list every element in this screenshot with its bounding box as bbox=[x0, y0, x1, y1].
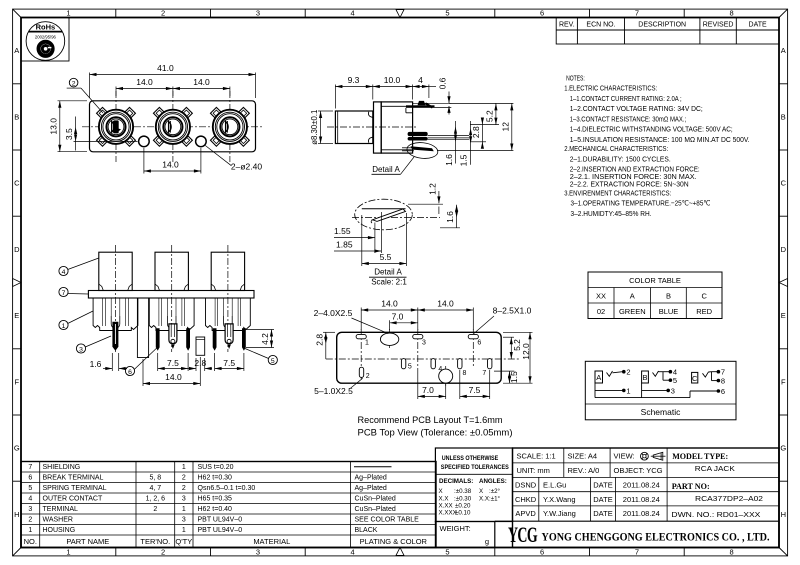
svg-text:NO.: NO. bbox=[24, 537, 37, 546]
parts table row 2 bbox=[28, 517, 419, 524]
pcb dims 14.0 bbox=[361, 298, 473, 330]
svg-text:A: A bbox=[596, 373, 601, 382]
svg-text:4: 4 bbox=[351, 9, 355, 18]
svg-text:9.3: 9.3 bbox=[348, 75, 360, 85]
svg-text:BLACK: BLACK bbox=[355, 527, 378, 534]
svg-text:1.5: 1.5 bbox=[509, 371, 519, 383]
rear view barrel 3 bbox=[211, 245, 244, 352]
svg-text:Recommend PCB Layout T=1.6m: Recommend PCB Layout T=1.6mm bbox=[358, 415, 503, 426]
svg-text:5–1.0X2.5: 5–1.0X2.5 bbox=[314, 386, 353, 396]
svg-text:14.0: 14.0 bbox=[165, 372, 182, 382]
detail A extension lines bbox=[362, 212, 407, 266]
svg-text:C: C bbox=[14, 179, 20, 188]
svg-text:DESCRIPTION: DESCRIPTION bbox=[638, 21, 686, 28]
rear view shield pin jack1 bbox=[112, 322, 118, 351]
svg-text:H62 t=0.40: H62 t=0.40 bbox=[198, 506, 233, 513]
svg-text:DWN. NO.: RD01–XXX: DWN. NO.: RD01–XXX bbox=[671, 510, 760, 519]
svg-text:8: 8 bbox=[730, 9, 734, 18]
rear view barrel 1 bbox=[99, 245, 132, 352]
svg-text:5: 5 bbox=[408, 364, 412, 371]
contact A wire to pin 1 bbox=[595, 383, 631, 398]
svg-text:BREAK TERMINAL: BREAK TERMINAL bbox=[43, 475, 104, 482]
svg-text:0.6: 0.6 bbox=[438, 77, 448, 89]
svg-text:7: 7 bbox=[28, 464, 32, 471]
tolerance box bbox=[435, 448, 512, 522]
svg-text:PART NO:: PART NO: bbox=[672, 482, 710, 491]
dims 9.3 and 10.0 bbox=[335, 75, 412, 109]
svg-text:DATE: DATE bbox=[593, 481, 612, 490]
svg-text:2–ø2.40: 2–ø2.40 bbox=[231, 161, 262, 171]
dim 1.6 detail bbox=[440, 205, 460, 228]
svg-text:2002/95/96: 2002/95/96 bbox=[35, 34, 57, 39]
svg-text:ø8.30±0.1: ø8.30±0.1 bbox=[310, 110, 319, 145]
dim 14.0 top pair bbox=[116, 77, 230, 96]
svg-text:B: B bbox=[14, 113, 19, 122]
svg-text:SPRING TERMINAL: SPRING TERMINAL bbox=[43, 485, 107, 492]
svg-text:14.0: 14.0 bbox=[381, 298, 398, 308]
svg-text:1: 1 bbox=[182, 527, 186, 534]
svg-text:2011.08.24: 2011.08.24 bbox=[623, 495, 660, 504]
svg-text:E: E bbox=[14, 311, 19, 320]
svg-text:SPECIFIED TOLERANCES: SPECIFIED TOLERANCES bbox=[441, 464, 510, 471]
pcb slot 3 bbox=[413, 334, 426, 346]
dim 41.0 bbox=[90, 63, 256, 98]
svg-text:F: F bbox=[781, 378, 786, 387]
svg-text:XX: XX bbox=[596, 292, 606, 301]
rear view break pin 4 bbox=[242, 328, 246, 351]
svg-text:6: 6 bbox=[477, 340, 481, 347]
schematic contact B bbox=[642, 371, 649, 383]
svg-text:8: 8 bbox=[730, 547, 734, 556]
svg-text:2.MECHANICAL CHARACTERISTICS:: 2.MECHANICAL CHARACTERISTICS: bbox=[564, 144, 668, 153]
title block grid bbox=[495, 448, 779, 548]
svg-text:7.0: 7.0 bbox=[422, 385, 434, 395]
rear view mounting plate bbox=[88, 291, 254, 299]
svg-text:REV.: A/0: REV.: A/0 bbox=[568, 466, 600, 475]
dim 7.5 rear right bbox=[215, 353, 244, 371]
svg-text:4, 7: 4, 7 bbox=[149, 485, 161, 492]
svg-text:02: 02 bbox=[597, 307, 605, 316]
svg-text:6: 6 bbox=[28, 475, 32, 482]
svg-text:E.L.Gu: E.L.Gu bbox=[543, 481, 566, 490]
pcb slot 1 bbox=[356, 334, 369, 346]
pcb label 2-4.0x2.5 bbox=[314, 308, 389, 334]
balloon 2 callout bbox=[67, 78, 103, 113]
detail A blade bbox=[362, 209, 406, 223]
balloon 3 bbox=[76, 336, 111, 353]
svg-text:SIZE: A4: SIZE: A4 bbox=[568, 452, 598, 461]
svg-text:X: X bbox=[479, 488, 483, 495]
svg-text:2: 2 bbox=[161, 9, 165, 18]
pcb slot 7 bbox=[482, 359, 492, 377]
svg-text:ANGLES:: ANGLES: bbox=[479, 478, 507, 485]
dim 2.8 rear bbox=[188, 358, 212, 371]
svg-text:14.0: 14.0 bbox=[136, 77, 153, 87]
dim 14.0 rear bbox=[143, 357, 200, 386]
svg-text:RCA JACK: RCA JACK bbox=[695, 464, 735, 473]
balloon 6 bbox=[125, 348, 157, 376]
pcb slot 2 bbox=[359, 367, 369, 380]
svg-text:1–2.CONTACT VOLTAGE RATING:: 1–2.CONTACT VOLTAGE RATING: 34V DC; bbox=[570, 104, 703, 113]
svg-text:1.2: 1.2 bbox=[428, 183, 438, 195]
contact B wire to pin 3 bbox=[642, 383, 675, 398]
dim 7.5 rear left bbox=[158, 353, 188, 371]
svg-text::±1°: :±1° bbox=[489, 496, 501, 503]
svg-text:5.5: 5.5 bbox=[380, 252, 392, 262]
pcb big oval hole left bbox=[380, 333, 398, 345]
pcb slot 8 bbox=[458, 359, 467, 377]
title row unit rev object model bbox=[517, 452, 735, 475]
svg-text:2.8: 2.8 bbox=[314, 334, 324, 346]
svg-text:HOUSING: HOUSING bbox=[43, 527, 76, 534]
svg-text:E: E bbox=[781, 311, 786, 320]
svg-text:OBJECT: YCG: OBJECT: YCG bbox=[614, 466, 663, 475]
svg-text:41.0: 41.0 bbox=[157, 63, 174, 73]
svg-text:Ag–Plated: Ag–Plated bbox=[355, 485, 387, 492]
parts table row 4 bbox=[28, 496, 396, 503]
dim 5.5 bbox=[362, 252, 407, 265]
svg-text:8: 8 bbox=[721, 377, 725, 386]
svg-text:5: 5 bbox=[271, 358, 275, 365]
pcb dim 1.5 bbox=[494, 371, 519, 383]
dim dia8.30 bbox=[310, 110, 333, 145]
svg-text:2–4.0X2.5: 2–4.0X2.5 bbox=[314, 308, 353, 318]
svg-text:H65 t=0.35: H65 t=0.35 bbox=[198, 496, 233, 503]
svg-text:SUS t=0.20: SUS t=0.20 bbox=[198, 464, 234, 471]
pcb hole 4 bbox=[438, 366, 452, 383]
svg-text:1: 1 bbox=[62, 323, 66, 330]
svg-text:3: 3 bbox=[256, 547, 260, 556]
svg-text:H: H bbox=[781, 510, 786, 519]
svg-text:1: 1 bbox=[182, 464, 186, 471]
svg-text:MODEL TYPE:: MODEL TYPE: bbox=[672, 452, 728, 461]
svg-text:REV.: REV. bbox=[559, 21, 575, 28]
rear view break pin 1 bbox=[156, 328, 160, 351]
parts table row 5 bbox=[28, 485, 387, 492]
rear view housing block 1 bbox=[93, 298, 138, 331]
detail A centerline bbox=[352, 217, 440, 219]
rear view break pin 3 bbox=[213, 328, 217, 351]
pcb slot 5 bbox=[401, 359, 411, 371]
pcb hole centerlines bbox=[361, 329, 473, 386]
svg-text:A: A bbox=[630, 292, 635, 301]
dim 3.5 bbox=[64, 117, 137, 151]
schematic box bbox=[585, 361, 736, 420]
company name bbox=[542, 529, 770, 543]
rear view housing block 2 bbox=[149, 298, 194, 331]
RCA jack 2 front bbox=[153, 91, 192, 162]
svg-text:SCALE: 1:1: SCALE: 1:1 bbox=[517, 452, 556, 461]
svg-text:COLOR TABLE: COLOR TABLE bbox=[629, 276, 681, 285]
svg-text:6: 6 bbox=[540, 9, 544, 18]
rear view spring terminal 2 bbox=[225, 324, 233, 349]
front view body bbox=[90, 101, 256, 152]
svg-text:2011.08.24: 2011.08.24 bbox=[623, 481, 660, 490]
pcb dim 7.0 bottom bbox=[418, 368, 446, 399]
svg-text:1, 2, 6: 1, 2, 6 bbox=[146, 496, 166, 503]
svg-text:5: 5 bbox=[445, 547, 449, 556]
svg-text:UNLESS OTHERWISE: UNLESS OTHERWISE bbox=[442, 455, 499, 462]
rear view center post bbox=[137, 298, 148, 358]
svg-text:4: 4 bbox=[351, 547, 355, 556]
svg-text:DATE: DATE bbox=[749, 21, 767, 28]
svg-text:6: 6 bbox=[128, 369, 132, 376]
side view top terminal bbox=[406, 101, 451, 113]
color table bbox=[588, 272, 722, 319]
svg-text:1: 1 bbox=[66, 547, 70, 556]
parts table row 6 bbox=[28, 475, 387, 482]
svg-text:2: 2 bbox=[72, 81, 76, 88]
side view body bbox=[335, 102, 412, 153]
svg-text:SEE COLOR TABLE: SEE COLOR TABLE bbox=[355, 517, 420, 524]
svg-text:2–1.DURABILITY: 1500 CYCLES.: 2–1.DURABILITY: 1500 CYCLES. bbox=[570, 154, 671, 163]
label 2-dia2.40 bbox=[205, 146, 262, 172]
svg-text:RoHs: RoHs bbox=[36, 23, 56, 32]
svg-text:3: 3 bbox=[79, 346, 83, 353]
parts table row 7 bbox=[28, 464, 391, 471]
svg-text:1.ELECTRIC CHARACTERISTICS:: 1.ELECTRIC CHARACTERISTICS: bbox=[564, 84, 657, 93]
svg-text:±0.20: ±0.20 bbox=[455, 503, 471, 510]
dim 1.6 side bbox=[444, 121, 457, 166]
title row dsnd bbox=[515, 481, 710, 491]
svg-text:DECIMALS:: DECIMALS: bbox=[439, 478, 473, 485]
rear view spring terminal 1 bbox=[169, 324, 177, 349]
schematic contact C bbox=[692, 372, 698, 383]
balloon 4 bbox=[59, 258, 99, 276]
svg-text:12.0: 12.0 bbox=[521, 343, 531, 360]
svg-text:Qsn6.5–0.1 t=0.30: Qsn6.5–0.1 t=0.30 bbox=[198, 485, 256, 492]
svg-text:5: 5 bbox=[445, 9, 449, 18]
pcb label 8-2.5x1.0 bbox=[474, 305, 532, 333]
svg-text:X.X: X.X bbox=[439, 496, 449, 503]
dim 2.8 side bbox=[470, 118, 486, 149]
pcb slot 6 bbox=[468, 334, 481, 346]
svg-text:3.5: 3.5 bbox=[64, 128, 74, 140]
svg-text:4: 4 bbox=[62, 269, 66, 276]
svg-text:7.5: 7.5 bbox=[223, 358, 235, 368]
mounting hole right bbox=[196, 136, 207, 147]
view projection symbols bbox=[641, 452, 666, 460]
svg-text:H: H bbox=[14, 510, 19, 519]
pcb dim 7.0 top bbox=[390, 311, 418, 330]
pcb dim 12.0 bbox=[503, 332, 533, 383]
svg-text:D: D bbox=[14, 245, 20, 254]
rear view housing block 3 bbox=[206, 298, 251, 331]
dim 0.6 bbox=[438, 77, 451, 114]
balloon 1 bbox=[59, 311, 93, 330]
svg-text:Schematic: Schematic bbox=[641, 407, 681, 417]
svg-text:3: 3 bbox=[422, 340, 426, 347]
svg-text:1–1.CONTACT CURRENT RATING:: 1–1.CONTACT CURRENT RATING: 2.0A ; bbox=[570, 94, 682, 103]
parts table row 3 bbox=[28, 506, 396, 513]
dim 1.5 side bbox=[458, 121, 472, 166]
svg-text:Ag–Plated: Ag–Plated bbox=[355, 475, 387, 482]
svg-text::±2°: :±2° bbox=[489, 488, 501, 495]
svg-text:3: 3 bbox=[256, 9, 260, 18]
svg-text:2011.08.24: 2011.08.24 bbox=[623, 509, 660, 518]
parts table header bbox=[24, 537, 428, 546]
svg-text:2: 2 bbox=[153, 506, 157, 513]
svg-text:Y.W.Jiang: Y.W.Jiang bbox=[543, 509, 576, 518]
RoHS logo box bbox=[21, 18, 69, 62]
mounting hole left bbox=[139, 136, 150, 147]
svg-text:±0.10: ±0.10 bbox=[455, 510, 471, 517]
dim 4.2 rear bbox=[246, 330, 274, 348]
RCA jack 3 front bbox=[210, 91, 249, 162]
svg-text:TERMINAL: TERMINAL bbox=[43, 506, 79, 513]
pcb slot mid bbox=[431, 359, 435, 369]
dim 4 bbox=[413, 75, 436, 98]
side view centerline bbox=[327, 126, 418, 128]
svg-text:2: 2 bbox=[161, 547, 165, 556]
svg-text:1: 1 bbox=[626, 386, 630, 395]
svg-text:14.0: 14.0 bbox=[162, 159, 179, 169]
svg-text:8: 8 bbox=[463, 370, 467, 377]
ground bus wire to pin 6 bbox=[595, 387, 725, 398]
svg-text:1.6: 1.6 bbox=[444, 154, 454, 166]
svg-text:3: 3 bbox=[671, 386, 675, 395]
front view horizontal centerline bbox=[82, 126, 263, 128]
svg-text:REVISED: REVISED bbox=[703, 21, 734, 28]
title row apvd bbox=[515, 509, 760, 519]
svg-text:C: C bbox=[701, 292, 707, 301]
svg-text:YCG: YCG bbox=[508, 522, 538, 547]
svg-text:DSND: DSND bbox=[515, 481, 537, 490]
svg-text:1.6: 1.6 bbox=[445, 211, 455, 223]
svg-text:F: F bbox=[15, 378, 20, 387]
svg-text:1: 1 bbox=[182, 506, 186, 513]
svg-text:D: D bbox=[781, 245, 787, 254]
svg-text:1–5.INSULATION RESISTANCE: 1: 1–5.INSULATION RESISTANCE: 100 MΩ MIN.AT… bbox=[570, 135, 750, 144]
pcb horizontal centerline bbox=[326, 358, 520, 360]
svg-text:ECN NO.: ECN NO. bbox=[586, 21, 615, 28]
svg-text:7.0: 7.0 bbox=[392, 311, 404, 321]
svg-text:Scale: 2:1: Scale: 2:1 bbox=[371, 277, 407, 286]
svg-text:WEIGHT:: WEIGHT: bbox=[440, 524, 471, 533]
svg-text::±0.30: :±0.30 bbox=[454, 496, 472, 503]
svg-text:7.5: 7.5 bbox=[469, 385, 481, 395]
schematic contact A bbox=[595, 371, 603, 383]
svg-text:CHKD: CHKD bbox=[515, 495, 537, 504]
svg-text:G: G bbox=[780, 444, 786, 453]
svg-text:PBT UL94V–0: PBT UL94V–0 bbox=[198, 527, 243, 534]
svg-text:1: 1 bbox=[365, 340, 369, 347]
svg-text:4: 4 bbox=[28, 496, 32, 503]
detail A ellipse bbox=[355, 199, 413, 230]
svg-text:X.XXX: X.XXX bbox=[439, 510, 457, 517]
svg-text:A: A bbox=[781, 46, 786, 55]
svg-text:3.ENVIRENMENT CHARACTERISTICS: 3.ENVIRENMENT CHARACTERISTICS: bbox=[564, 189, 671, 198]
pcb outline bbox=[337, 332, 502, 383]
svg-text:BLUE: BLUE bbox=[659, 307, 679, 316]
title row chkd bbox=[515, 494, 763, 504]
svg-text:Q'TY: Q'TY bbox=[175, 537, 192, 546]
svg-text:2: 2 bbox=[182, 485, 186, 492]
rear view center pin boss bbox=[196, 337, 205, 355]
svg-text:2: 2 bbox=[626, 368, 630, 377]
svg-text:8–2.5X1.0: 8–2.5X1.0 bbox=[493, 305, 532, 315]
svg-text:2–2.2. EXTRACTION FORCE: 5N: 2–2.2. EXTRACTION FORCE: 5N~30N bbox=[570, 179, 689, 188]
svg-text:3–2.HUMIDTY:45–85% RH.: 3–2.HUMIDTY:45–85% RH. bbox=[571, 209, 652, 218]
svg-text:2: 2 bbox=[366, 373, 370, 380]
rear view break pin 2 bbox=[186, 328, 190, 351]
svg-text:GREEN: GREEN bbox=[619, 307, 646, 316]
svg-text:2: 2 bbox=[28, 517, 32, 524]
YCG logo bbox=[508, 522, 538, 547]
svg-text:1.6: 1.6 bbox=[90, 359, 102, 369]
svg-text:PBT UL94V–0: PBT UL94V–0 bbox=[198, 517, 243, 524]
detail A caption bbox=[369, 267, 407, 286]
svg-text:Detail A: Detail A bbox=[374, 267, 402, 276]
svg-text:3: 3 bbox=[182, 496, 186, 503]
dim 12 bbox=[437, 103, 513, 150]
weight box bbox=[435, 522, 494, 548]
svg-text:1–3.CONTACT RESISTANCE: 30mΩ: 1–3.CONTACT RESISTANCE: 30mΩ MAX.; bbox=[570, 114, 687, 123]
svg-text:5: 5 bbox=[673, 376, 677, 385]
pcb dim 2.8 bbox=[314, 332, 335, 359]
svg-text:5.2: 5.2 bbox=[484, 110, 494, 122]
svg-text:10.0: 10.0 bbox=[384, 75, 401, 85]
svg-text:g: g bbox=[485, 537, 489, 546]
svg-text:VIEW:: VIEW: bbox=[614, 452, 635, 461]
svg-text:MATERIAL: MATERIAL bbox=[253, 537, 290, 546]
svg-text:B: B bbox=[642, 373, 647, 382]
svg-text:WASHER: WASHER bbox=[43, 517, 73, 524]
svg-text:7: 7 bbox=[635, 9, 639, 18]
pcb dim 5.2 bbox=[503, 337, 522, 359]
svg-text:Detail A: Detail A bbox=[372, 165, 400, 174]
svg-text:X.X: X.X bbox=[479, 496, 489, 503]
svg-text:1.85: 1.85 bbox=[336, 240, 353, 250]
svg-text:6: 6 bbox=[721, 387, 725, 396]
svg-text:CuSn–Plated: CuSn–Plated bbox=[355, 496, 396, 503]
svg-text::±0.38: :±0.38 bbox=[454, 488, 472, 495]
svg-text:3: 3 bbox=[182, 517, 186, 524]
revision history table bbox=[556, 18, 779, 45]
svg-text:PCB Top View (Tolerance: ±: PCB Top View (Tolerance: ±0.05mm) bbox=[358, 428, 513, 439]
svg-text:YONG CHENGGONG ELECTRONICS: YONG CHENGGONG ELECTRONICS CO. , LTD. bbox=[542, 529, 770, 543]
RCA jack 1 front bbox=[97, 91, 136, 162]
dim 1.6 rear bbox=[90, 353, 127, 371]
svg-text:UNIT: mm: UNIT: mm bbox=[517, 466, 550, 475]
svg-text:H62 t=0.30: H62 t=0.30 bbox=[198, 475, 233, 482]
side view bottom terminal with detail ellipse bbox=[402, 141, 439, 160]
dim 1.55 bbox=[334, 226, 375, 239]
svg-text:G: G bbox=[14, 444, 20, 453]
svg-text:14.0: 14.0 bbox=[193, 77, 210, 87]
svg-text:4: 4 bbox=[418, 75, 423, 85]
svg-text:6: 6 bbox=[540, 547, 544, 556]
svg-text:RCA377DP2–A02: RCA377DP2–A02 bbox=[695, 494, 763, 503]
svg-text:7: 7 bbox=[635, 547, 639, 556]
svg-text:4: 4 bbox=[438, 366, 442, 373]
svg-text:APVD: APVD bbox=[515, 509, 536, 518]
svg-text:7.5: 7.5 bbox=[167, 358, 179, 368]
svg-text:5: 5 bbox=[28, 485, 32, 492]
svg-text:X: X bbox=[439, 488, 443, 495]
svg-text:CuSn–Plated: CuSn–Plated bbox=[355, 506, 396, 513]
svg-text:1: 1 bbox=[66, 9, 70, 18]
svg-text:2: 2 bbox=[182, 475, 186, 482]
dim 14.0 bottom bbox=[144, 148, 201, 174]
svg-text:1–4.DIELECTRIC WITHSTANDING: 1–4.DIELECTRIC WITHSTANDING VOLTAGE: 500… bbox=[570, 124, 733, 133]
svg-text:PLATING & COLOR: PLATING & COLOR bbox=[360, 537, 428, 546]
svg-text:3: 3 bbox=[28, 506, 32, 513]
svg-text:12: 12 bbox=[500, 122, 510, 132]
title row scale size view bbox=[517, 452, 635, 461]
contact B wires to pins 4 and 5 bbox=[653, 368, 678, 386]
svg-text:7: 7 bbox=[62, 290, 66, 297]
